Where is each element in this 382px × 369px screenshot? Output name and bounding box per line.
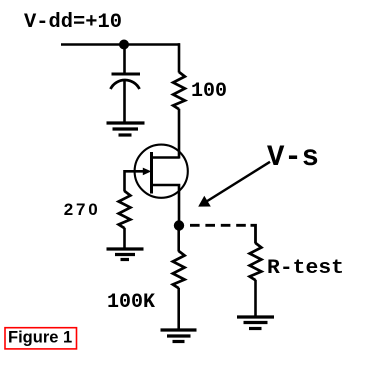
- svg-text:R-test: R-test: [267, 257, 344, 280]
- wire resistor 100 to drain: [178, 109, 181, 159]
- resistor R-test: [250, 243, 262, 280]
- resistor R 270: [119, 191, 131, 228]
- transistor Q1 JFET circle: [135, 145, 188, 198]
- svg-text:270: 270: [64, 200, 101, 219]
- transistor Q1 channel bar: [150, 152, 153, 194]
- node source junction dot V-s: [174, 220, 184, 230]
- capacitor C1 curved bottom plate: [111, 80, 140, 89]
- svg-text:V-s: V-s: [267, 141, 319, 175]
- wire junction to capacitor: [123, 45, 126, 75]
- resistor R 100K: [173, 251, 185, 288]
- transistor Q1 gate arrowhead: [143, 168, 152, 176]
- ground under 100K: [161, 330, 197, 342]
- resistor R 100: [173, 72, 185, 109]
- ground under R-test: [237, 317, 274, 329]
- transistor Q1 gate wire and corner: [125, 171, 147, 191]
- wire R-test to ground: [254, 280, 257, 316]
- wire rail to resistor 100: [178, 43, 181, 72]
- svg-text:V-dd=+10: V-dd=+10: [24, 11, 122, 34]
- transistor Q1 source lead: [152, 185, 180, 226]
- wire node to resistor 100K: [177, 226, 180, 252]
- arrow pointer line to V-s node: [207, 162, 271, 202]
- wire capacitor to ground: [123, 81, 126, 123]
- svg-text:100: 100: [191, 80, 227, 103]
- wire corner into R-test: [251, 225, 256, 243]
- capacitor C1 top plate: [112, 73, 141, 76]
- arrow pointer head: [198, 196, 211, 207]
- wire 270 to ground: [123, 228, 126, 248]
- wire 100K to ground: [177, 288, 180, 329]
- ground under 270: [107, 249, 144, 260]
- svg-text:100K: 100K: [107, 291, 155, 314]
- Figure 1 caption box: [5, 328, 77, 349]
- node junction dot Vdd: [119, 40, 129, 50]
- wire dashed from node to R-test: [190, 224, 251, 227]
- wire top horizontal V-dd rail: [61, 43, 180, 46]
- transistor Q1 drain lead: [152, 156, 180, 159]
- ground under capacitor: [107, 123, 145, 135]
- svg-text:Figure 1: Figure 1: [8, 329, 72, 347]
